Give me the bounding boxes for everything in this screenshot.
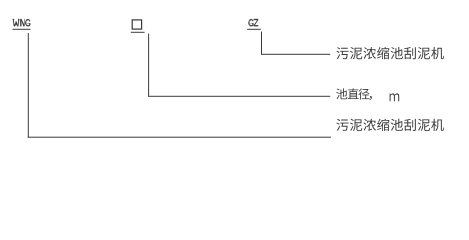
label: box = tank diameter, m — [336, 88, 347, 99]
leader line from box (vertical) — [148, 34, 149, 97]
underline under WNG — [13, 29, 31, 30]
leader line from WNG (vertical) — [28, 33, 29, 138]
leader line from GZ (horizontal) — [261, 54, 330, 55]
leader line from GZ (vertical) — [261, 32, 262, 55]
box field (blank square) — [132, 20, 141, 29]
code WNG — [13, 19, 20, 26]
code GZ — [248, 19, 253, 26]
underline under box — [131, 32, 145, 33]
label: GZ = sludge thickening tank scraper — [337, 47, 349, 59]
leader line from WNG (horizontal) — [28, 137, 331, 138]
underline under GZ — [247, 29, 261, 30]
label: WNG = sludge thickening tank scraper — [337, 119, 349, 131]
leader line from box (horizontal) — [148, 96, 330, 97]
model designation diagram — [0, 0, 469, 175]
